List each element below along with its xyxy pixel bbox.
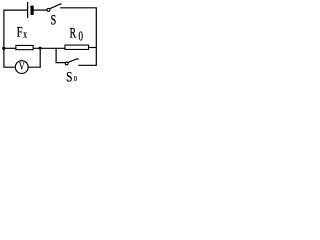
switch S blade — [50, 4, 61, 9]
svg-text:F: F — [17, 25, 23, 41]
wire top-right and right vertical rail down to S0 contact — [61, 8, 97, 66]
wire voltmeter right lead up to node B — [28, 49, 40, 67]
resistor R0 box — [65, 45, 89, 49]
svg-text:V: V — [19, 62, 25, 73]
battery short thick plate — [30, 6, 33, 15]
switch S0 blade — [68, 59, 79, 62]
resistor Fx box — [16, 45, 33, 49]
switch S0 pivot contact — [65, 62, 68, 65]
wire R0 to right rail — [89, 47, 96, 49]
battery long thin plate — [27, 2, 29, 18]
switch S pivot contact — [47, 8, 50, 11]
wire node C drop to switch S0 — [56, 48, 65, 62]
wire top-left corner and left vertical rail — [4, 10, 27, 67]
wire battery to switch S — [34, 9, 47, 11]
node A junction dot — [2, 47, 5, 50]
svg-text:S: S — [66, 68, 72, 85]
svg-text:x: x — [23, 30, 27, 41]
node B junction dot — [39, 47, 42, 50]
svg-text:R: R — [70, 26, 77, 42]
voltmeter circle — [15, 61, 28, 74]
wire node A to resistor Fx — [4, 47, 16, 49]
wire Fx to node B and on to R0 — [34, 47, 65, 49]
svg-text:S: S — [51, 13, 57, 29]
svg-text:0: 0 — [79, 29, 84, 44]
svg-text:0: 0 — [74, 74, 77, 83]
